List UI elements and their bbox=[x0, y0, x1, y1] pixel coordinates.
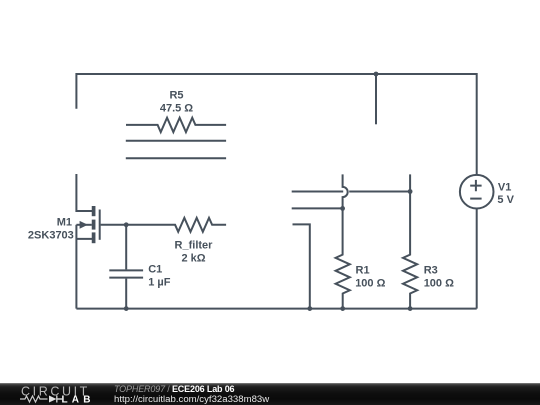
svg-text:2SK3703: 2SK3703 bbox=[28, 229, 74, 241]
transistor M1 channel bottom bar bbox=[92, 232, 96, 243]
resistor R5 bbox=[126, 118, 226, 132]
svg-text:2 kΩ: 2 kΩ bbox=[181, 252, 205, 264]
wire with hop and resistor R1 bbox=[336, 174, 350, 308]
node R3 bottom bbox=[408, 306, 413, 311]
svg-text:47.5 Ω: 47.5 Ω bbox=[160, 102, 193, 114]
footer credit line 1 bbox=[114, 385, 234, 394]
capacitor C1 top plate bbox=[109, 269, 143, 271]
node elbow bottom bbox=[307, 306, 312, 311]
wire horizontal left of hop bbox=[292, 191, 344, 193]
wire stub from top rail node bbox=[375, 74, 377, 124]
CircuitLab logo bbox=[0, 383, 110, 405]
svg-text:C1: C1 bbox=[148, 264, 162, 276]
node R3 top bbox=[408, 189, 413, 194]
wire drain lead of M1 bbox=[76, 174, 92, 211]
svg-text:R5: R5 bbox=[169, 90, 183, 102]
transistor M1 channel middle bar bbox=[92, 220, 96, 230]
wire horizontal right of hop to R3 node bbox=[349, 191, 410, 193]
wire elbow to bottom rail bbox=[293, 224, 310, 308]
wire and resistor R3 bbox=[403, 174, 417, 308]
transistor M1 gate bar bbox=[99, 210, 101, 240]
node on top rail bbox=[374, 72, 379, 77]
node gate / C1 bbox=[124, 222, 129, 227]
transistor M1 channel top bar bbox=[92, 206, 96, 216]
svg-text:1 µF: 1 µF bbox=[148, 277, 171, 289]
svg-text:R_filter: R_filter bbox=[175, 239, 214, 251]
footer bar bbox=[0, 383, 540, 405]
transistor M1 body arrow wire bbox=[76, 224, 91, 226]
wire bottom rail bbox=[76, 308, 476, 310]
voltage source V1 minus sign bbox=[470, 198, 481, 200]
svg-text:5 V: 5 V bbox=[497, 194, 514, 206]
svg-text:100 Ω: 100 Ω bbox=[355, 278, 385, 290]
svg-text:V1: V1 bbox=[498, 182, 511, 194]
wire horizontal to R1 node bbox=[292, 207, 343, 209]
transistor M1 arrowhead bbox=[80, 221, 88, 229]
node R1 top bbox=[340, 206, 345, 211]
svg-text:LAB: LAB bbox=[62, 395, 95, 405]
wire source vertical to bottom rail bbox=[75, 225, 77, 309]
capacitor C1 bottom plate bbox=[109, 277, 143, 279]
svg-text:100 Ω: 100 Ω bbox=[424, 278, 454, 290]
svg-text:R3: R3 bbox=[424, 265, 438, 277]
wire gate lead and resistor R_filter bbox=[101, 218, 227, 232]
transistor M1 source lead bbox=[76, 238, 93, 240]
wire line 1 under R5 bbox=[126, 140, 226, 142]
voltage source V1 bottom lead bbox=[476, 209, 478, 309]
wire line 2 under R5 bbox=[126, 157, 226, 159]
footer credit line 2 bbox=[114, 395, 269, 404]
voltage source V1 circle bbox=[460, 175, 494, 209]
voltage source V1 plus sign bbox=[470, 180, 481, 191]
wire top rail with left drop bbox=[76, 74, 476, 175]
svg-text:R1: R1 bbox=[356, 265, 370, 277]
svg-text:M1: M1 bbox=[57, 217, 72, 229]
node C1 bottom bbox=[124, 306, 129, 311]
node R1 bottom bbox=[340, 306, 345, 311]
capacitor C1 top lead bbox=[125, 225, 127, 270]
capacitor C1 bottom lead bbox=[125, 279, 127, 309]
